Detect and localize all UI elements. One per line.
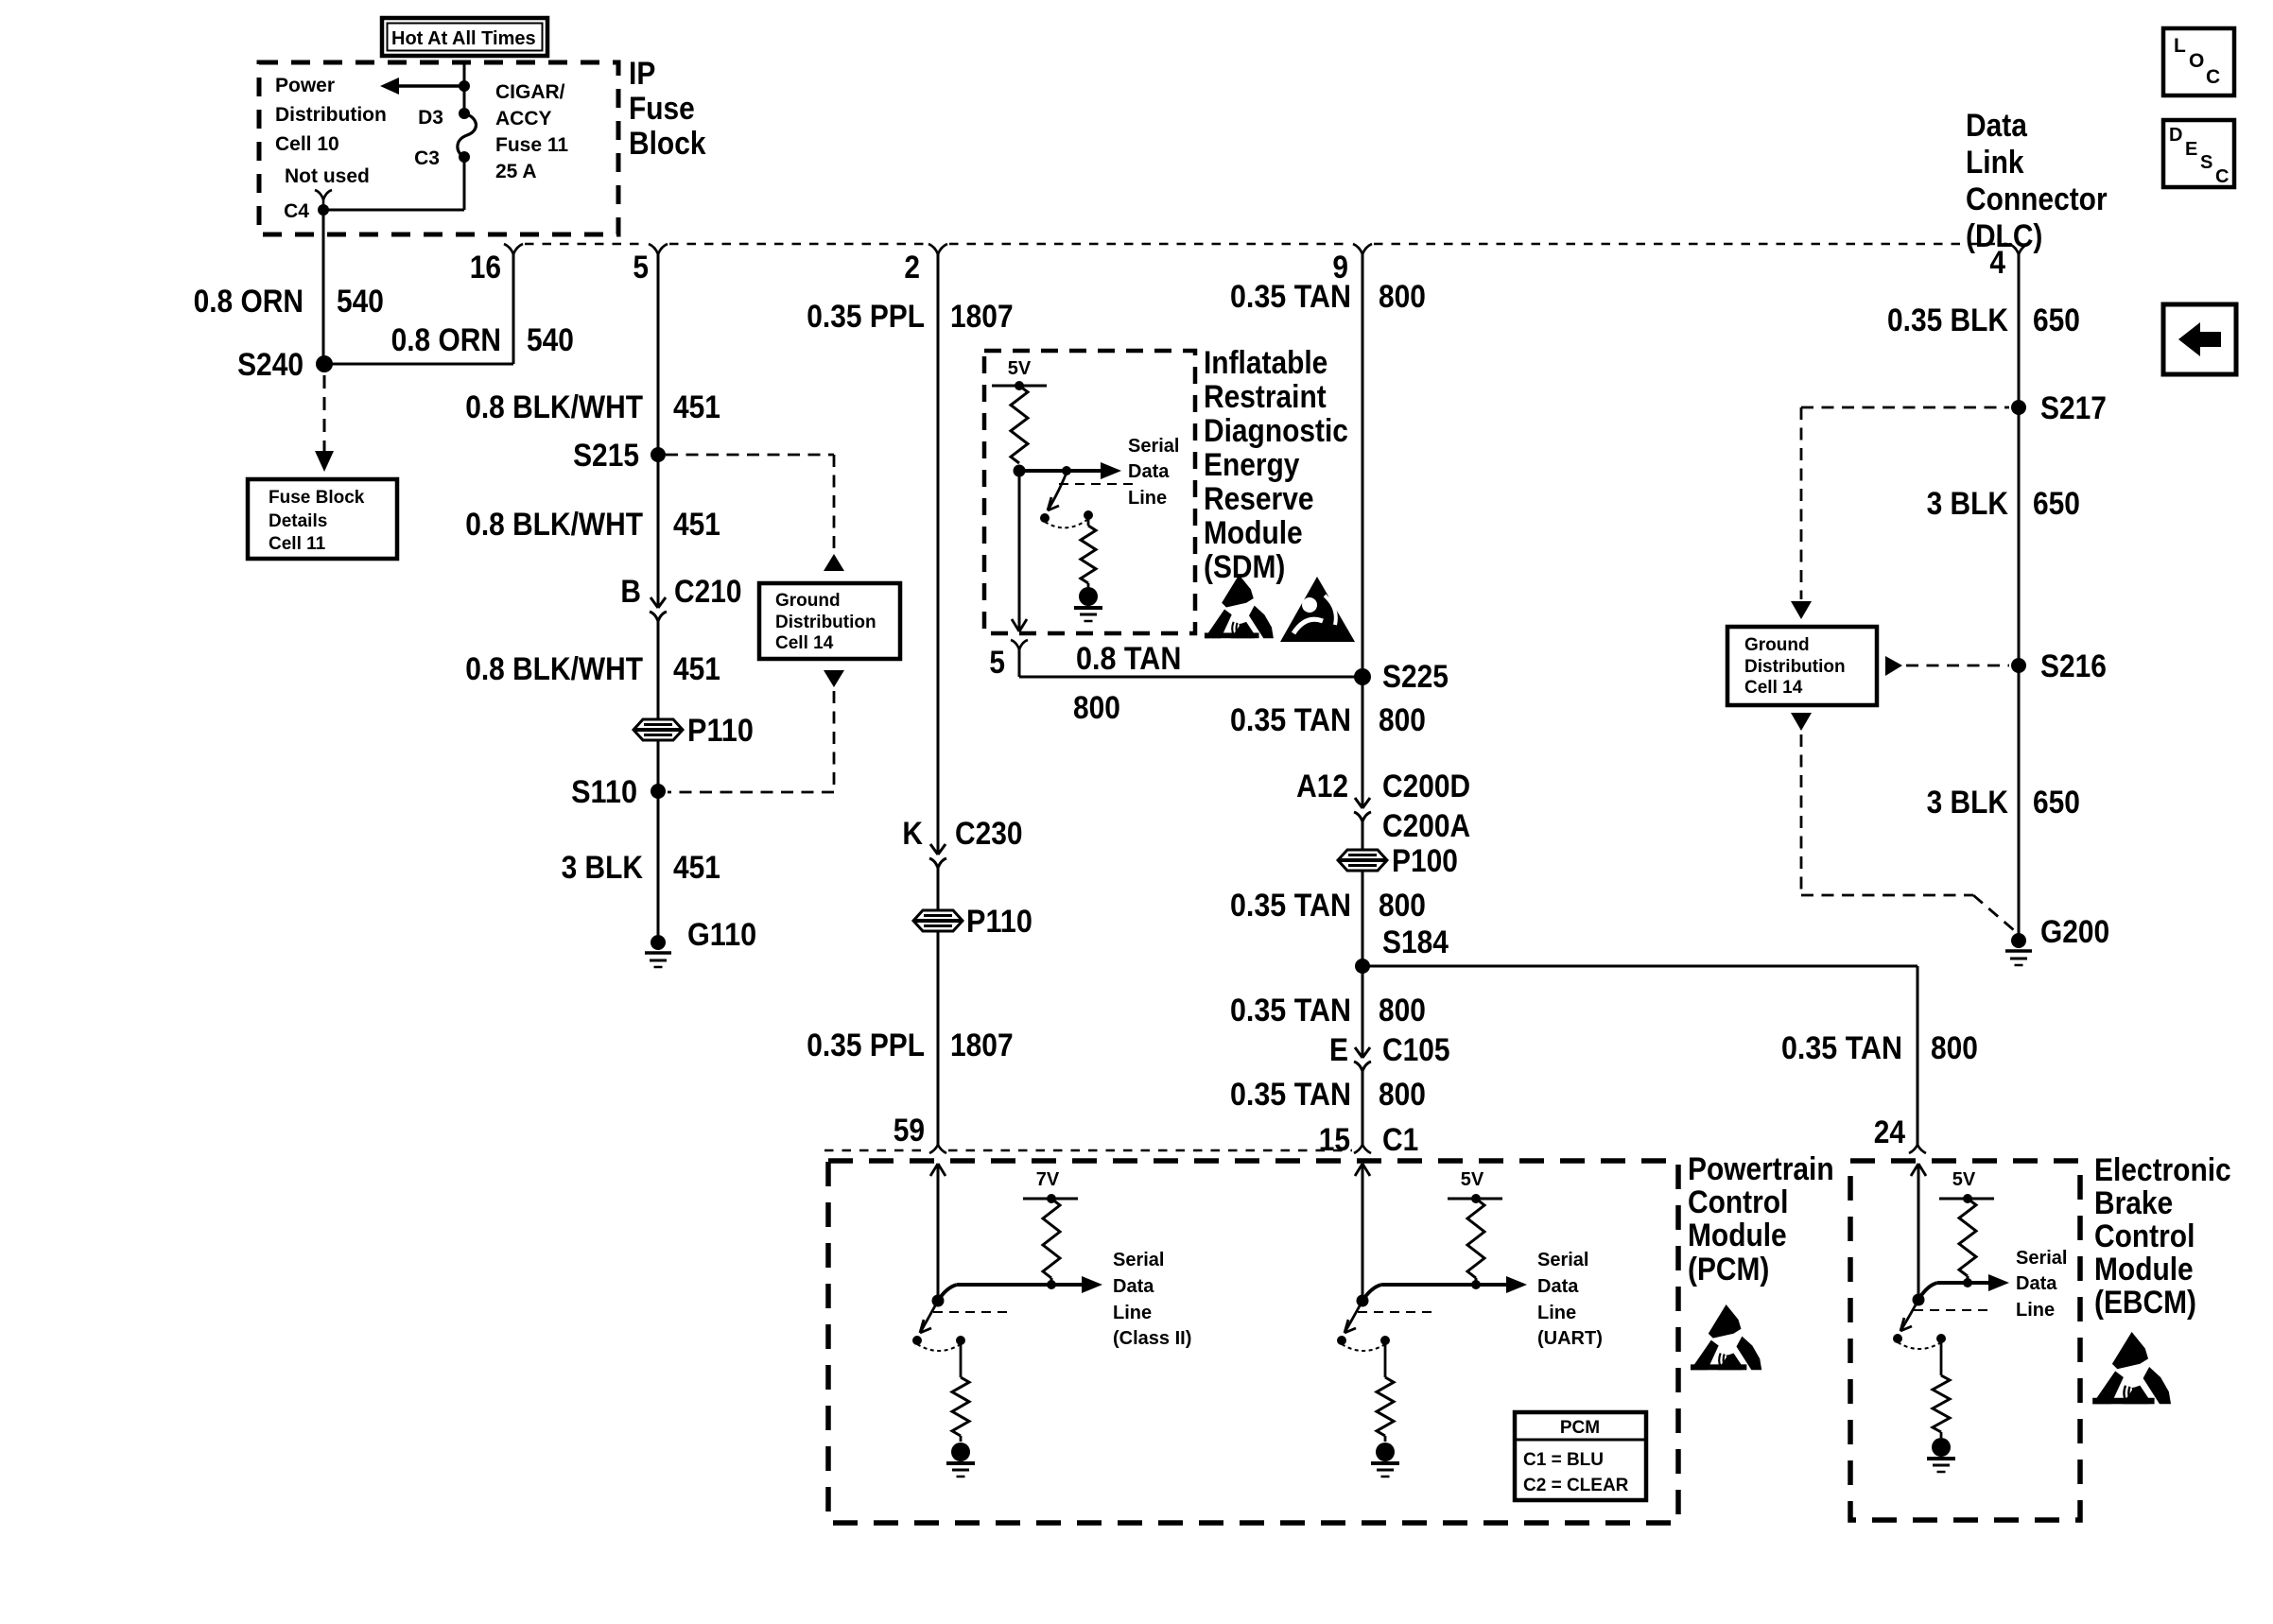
grommet P110 xyxy=(633,719,683,740)
SDM switch pivot xyxy=(1062,466,1071,475)
svg-text:5: 5 xyxy=(633,250,649,285)
ground G110 xyxy=(651,935,666,950)
grommet P110 (floor pan) xyxy=(913,910,963,931)
wire: pin 9 to C200 xyxy=(1362,254,1364,808)
wire: feed from Hot At All Times into fuse block xyxy=(463,64,466,113)
svg-text:Fuse Block: Fuse Block xyxy=(269,488,365,508)
arrow out of right Ground Distribution (side) xyxy=(1885,656,1902,676)
arrow to Power Distribution xyxy=(398,84,464,88)
svg-text:Line: Line xyxy=(1537,1303,1576,1323)
svg-text:540: 540 xyxy=(337,284,384,320)
svg-text:S110: S110 xyxy=(571,774,637,810)
svg-text:0.35 TAN: 0.35 TAN xyxy=(1781,1030,1902,1066)
arrow into Ground Distribution (top) xyxy=(824,554,844,571)
svg-text:800: 800 xyxy=(1379,993,1426,1028)
EBCM pin 24 xyxy=(1909,1145,1926,1153)
svg-text:451: 451 xyxy=(673,850,720,886)
SDM junction xyxy=(1014,465,1026,477)
svg-text:Serial: Serial xyxy=(1537,1250,1588,1270)
DLC pin 9 xyxy=(1353,244,1372,254)
EBCM pull-up resistor xyxy=(1959,1199,1976,1276)
svg-text:Module: Module xyxy=(1204,515,1303,551)
svg-text:540: 540 xyxy=(527,322,574,358)
svg-text:Inflatable: Inflatable xyxy=(1204,345,1327,381)
svg-text:Restraint: Restraint xyxy=(1204,379,1327,415)
wire: S184 branch to EBCM pin 24 xyxy=(1362,965,1917,968)
splice S240 xyxy=(316,355,333,372)
svg-text:3 BLK: 3 BLK xyxy=(1927,785,2009,821)
svg-text:Connector: Connector xyxy=(1966,181,2108,217)
dashed arrow: S240 to Fuse Block Details xyxy=(323,375,326,452)
svg-text:Serial: Serial xyxy=(1128,436,1179,457)
DLC pin 4 xyxy=(2009,244,2028,254)
svg-text:Hot At All Times: Hot At All Times xyxy=(391,28,536,49)
svg-text:0.35 PPL: 0.35 PPL xyxy=(807,1028,925,1063)
svg-text:Fuse: Fuse xyxy=(629,91,695,127)
reference box: DESC xyxy=(2163,120,2234,187)
svg-text:Reserve: Reserve xyxy=(1204,481,1314,517)
svg-text:650: 650 xyxy=(2033,785,2080,821)
svg-text:Line: Line xyxy=(1113,1303,1152,1323)
svg-text:0.8 BLK/WHT: 0.8 BLK/WHT xyxy=(465,389,643,425)
svg-text:451: 451 xyxy=(673,507,720,543)
reference box: Ground Distribution Cell 14 (left) xyxy=(759,583,900,659)
svg-text:Data: Data xyxy=(2016,1273,2057,1294)
connector C210 pin B xyxy=(651,597,658,608)
svg-text:5V: 5V xyxy=(1952,1169,1976,1190)
svg-text:(DLC): (DLC) xyxy=(1966,218,2042,254)
ESD warning triangle (EBCM) xyxy=(2092,1332,2171,1404)
svg-text:Not used: Not used xyxy=(285,165,370,187)
wire: pin 5 to C210 xyxy=(657,254,660,608)
svg-text:C4: C4 xyxy=(284,200,309,222)
PCM 7V supply rail xyxy=(1023,1198,1078,1201)
svg-text:0.35 TAN: 0.35 TAN xyxy=(1230,888,1351,924)
svg-text:Serial: Serial xyxy=(1113,1250,1164,1270)
svg-text:Powertrain: Powertrain xyxy=(1688,1151,1834,1187)
svg-text:0.35 TAN: 0.35 TAN xyxy=(1230,279,1351,315)
svg-text:0.8 TAN: 0.8 TAN xyxy=(1076,641,1181,677)
connector C4 (not used) chevron xyxy=(315,190,332,199)
svg-text:0.8 BLK/WHT: 0.8 BLK/WHT xyxy=(465,507,643,543)
IP Fuse Block dashed box xyxy=(259,62,618,234)
svg-text:800: 800 xyxy=(1379,702,1426,738)
wire: fuse C3 down and left to C4 xyxy=(463,157,466,210)
connector C105 pin E xyxy=(1355,1047,1362,1058)
label box: Hot At All Times xyxy=(382,18,547,56)
fuse CIGAR/ACCY Fuse 11 25 A (terminals D3/C3) xyxy=(459,108,470,119)
svg-text:(PCM): (PCM) xyxy=(1688,1252,1769,1287)
SDM switch arm xyxy=(1048,473,1067,510)
svg-text:CIGAR/: CIGAR/ xyxy=(495,81,565,103)
svg-text:Distribution: Distribution xyxy=(775,613,876,632)
DLC pin 2 xyxy=(928,244,947,254)
grommet P100 xyxy=(1338,850,1387,871)
svg-text:C1: C1 xyxy=(1382,1122,1418,1158)
svg-text:Data: Data xyxy=(1113,1276,1154,1297)
svg-text:E: E xyxy=(1329,1032,1348,1068)
svg-text:Distribution: Distribution xyxy=(1744,657,1846,677)
wire: C210 to P110 xyxy=(657,620,660,719)
svg-text:800: 800 xyxy=(1931,1030,1978,1066)
svg-text:S215: S215 xyxy=(573,438,639,474)
DLC internal bus (dashed) xyxy=(525,243,647,245)
svg-text:800: 800 xyxy=(1379,279,1426,315)
svg-text:B: B xyxy=(620,574,641,610)
svg-text:G200: G200 xyxy=(2040,914,2109,950)
EBCM 5V supply rail xyxy=(1939,1198,1994,1201)
PCM UART switch and serial data arrow xyxy=(1357,1295,1369,1307)
svg-text:A12: A12 xyxy=(1296,769,1348,804)
svg-text:451: 451 xyxy=(673,651,720,687)
arrow into right Ground Distribution (top) xyxy=(1791,601,1812,619)
wire: C105 to PCM pin 15 xyxy=(1362,1070,1364,1145)
svg-text:0.35 PPL: 0.35 PPL xyxy=(807,299,925,335)
svg-text:Energy: Energy xyxy=(1204,447,1299,483)
SDM internal ground xyxy=(1079,587,1098,606)
ESD warning triangle (PCM) xyxy=(1691,1304,1761,1370)
svg-text:0.8 BLK/WHT: 0.8 BLK/WHT xyxy=(465,651,643,687)
svg-text:16: 16 xyxy=(470,250,501,285)
svg-text:451: 451 xyxy=(673,389,720,425)
svg-text:P100: P100 xyxy=(1392,843,1458,879)
splice S216 xyxy=(2011,658,2026,673)
PCM UART pull-down resistor xyxy=(1384,1344,1387,1377)
wire: pin 2 to C230 xyxy=(937,254,940,855)
svg-text:S217: S217 xyxy=(2040,390,2107,426)
DLC pin 16 xyxy=(504,244,523,254)
svg-text:C: C xyxy=(2215,166,2229,187)
svg-text:Module: Module xyxy=(1688,1218,1787,1253)
svg-text:Brake: Brake xyxy=(2094,1185,2173,1221)
svg-text:G110: G110 xyxy=(687,917,756,953)
wire: S240 to DLC pin 16 xyxy=(324,363,513,366)
PCM class II switch and serial data arrow xyxy=(932,1295,945,1307)
svg-text:K: K xyxy=(902,816,923,852)
SDM switch contacts xyxy=(1040,513,1050,523)
svg-text:Module: Module xyxy=(2094,1252,2194,1287)
svg-text:Cell 10: Cell 10 xyxy=(275,133,339,155)
reference box: Ground Distribution Cell 14 (right) xyxy=(1727,627,1877,705)
svg-text:Electronic: Electronic xyxy=(2094,1152,2231,1188)
svg-text:5V: 5V xyxy=(1008,358,1032,379)
svg-text:800: 800 xyxy=(1379,1077,1426,1113)
wire: SDM junction to pin 5 (internal) xyxy=(1018,471,1021,631)
svg-text:3 BLK: 3 BLK xyxy=(562,850,644,886)
svg-text:2: 2 xyxy=(904,250,920,285)
svg-text:0.35 TAN: 0.35 TAN xyxy=(1230,1077,1351,1113)
EBCM switch and serial data arrow xyxy=(1913,1294,1925,1306)
SDM pin 5 connector xyxy=(1011,640,1028,649)
svg-text:C3: C3 xyxy=(414,147,440,169)
svg-text:24: 24 xyxy=(1874,1114,1905,1150)
svg-text:0.8 ORN: 0.8 ORN xyxy=(194,284,304,320)
svg-text:E: E xyxy=(2185,139,2197,160)
svg-text:Cell 14: Cell 14 xyxy=(1744,678,1803,698)
svg-text:(SDM): (SDM) xyxy=(1204,549,1285,585)
wire: P110 to PCM pin 59 xyxy=(937,931,940,1145)
svg-text:Distribution: Distribution xyxy=(275,104,387,126)
junction C4 xyxy=(318,204,329,216)
svg-text:ACCY: ACCY xyxy=(495,108,552,130)
PCM pin 59 xyxy=(929,1145,946,1153)
svg-text:C: C xyxy=(2206,66,2220,88)
svg-text:S225: S225 xyxy=(1382,659,1449,695)
SDM dashed box xyxy=(984,351,1195,633)
wire: P110 to G110 xyxy=(657,740,660,935)
wire: C230 to P110 xyxy=(937,867,940,910)
svg-text:Control: Control xyxy=(2094,1218,2195,1254)
ground G200 xyxy=(2011,933,2026,948)
svg-text:3 BLK: 3 BLK xyxy=(1927,486,2009,522)
PCM class II pull-up resistor xyxy=(1043,1199,1060,1278)
svg-text:Details: Details xyxy=(269,511,327,531)
svg-text:650: 650 xyxy=(2033,302,2080,338)
arrow out of right Ground Distribution (bottom) xyxy=(1791,713,1812,731)
svg-text:0.35 BLK: 0.35 BLK xyxy=(1887,302,2008,338)
PCM UART pull-up resistor xyxy=(1467,1199,1484,1278)
svg-text:59: 59 xyxy=(894,1113,925,1149)
splice S215 xyxy=(651,447,666,462)
dashed link: Ground Distribution to S216 xyxy=(1906,665,2009,667)
splice S225 xyxy=(1354,668,1371,685)
wire: P100 to C105 xyxy=(1362,871,1364,1058)
splice S110 xyxy=(651,784,666,799)
svg-text:C200D: C200D xyxy=(1382,769,1470,804)
svg-text:C1 = BLU: C1 = BLU xyxy=(1523,1450,1604,1470)
svg-text:P110: P110 xyxy=(966,904,1032,940)
svg-text:Serial: Serial xyxy=(2016,1248,2067,1269)
SDM serial data line arrow xyxy=(1019,469,1102,473)
svg-text:Power: Power xyxy=(275,75,335,96)
svg-text:5: 5 xyxy=(989,645,1005,681)
svg-text:0.35 TAN: 0.35 TAN xyxy=(1230,702,1351,738)
svg-text:0.8 ORN: 0.8 ORN xyxy=(391,322,501,358)
svg-text:Data: Data xyxy=(1128,461,1170,482)
SDM pull-down resistor xyxy=(1087,519,1090,526)
EBCM pull-down resistor xyxy=(1940,1342,1943,1375)
splice S217 xyxy=(2011,400,2026,415)
svg-text:Ground: Ground xyxy=(1744,635,1810,655)
svg-text:PCM: PCM xyxy=(1560,1418,1600,1438)
svg-text:Data: Data xyxy=(1537,1276,1579,1297)
svg-text:800: 800 xyxy=(1379,888,1426,924)
ESD warning triangle (SDM) xyxy=(1205,575,1274,638)
svg-text:C210: C210 xyxy=(674,574,742,610)
svg-text:1807: 1807 xyxy=(950,1028,1014,1063)
svg-text:7V: 7V xyxy=(1036,1169,1060,1190)
svg-text:Line: Line xyxy=(1128,488,1167,509)
svg-text:Ground: Ground xyxy=(775,591,841,611)
PCM 5V supply rail xyxy=(1448,1198,1502,1201)
svg-text:(Class II): (Class II) xyxy=(1113,1328,1191,1349)
connector C200D/C200A pin A12 xyxy=(1355,798,1362,808)
arrow out of Ground Distribution (bottom) xyxy=(824,670,844,687)
EBCM input wire xyxy=(1911,1164,1918,1176)
connector legend box: PCM C1=BLU C2=CLEAR xyxy=(1515,1412,1646,1500)
PCM UART input wire xyxy=(1355,1164,1362,1176)
dashed link: S215 to Ground Distribution xyxy=(666,454,834,457)
svg-text:(UART): (UART) xyxy=(1537,1328,1603,1349)
svg-text:Diagnostic: Diagnostic xyxy=(1204,413,1348,449)
svg-text:15: 15 xyxy=(1319,1122,1350,1158)
wire: C4 down to S240 xyxy=(322,210,325,364)
reference box: LOC xyxy=(2163,28,2234,95)
svg-text:C2 = CLEAR: C2 = CLEAR xyxy=(1523,1476,1629,1495)
svg-text:S: S xyxy=(2200,152,2212,173)
svg-text:C230: C230 xyxy=(955,816,1023,852)
SDM pull-up resistor xyxy=(1011,386,1028,463)
svg-text:Fuse 11: Fuse 11 xyxy=(495,134,568,156)
dashed link: Ground Distribution to G200 xyxy=(1800,734,1803,895)
svg-text:S184: S184 xyxy=(1382,924,1449,960)
SDM 5V supply rail xyxy=(992,385,1047,388)
bottom pin bus (dashed) xyxy=(824,1149,928,1151)
svg-text:C105: C105 xyxy=(1382,1032,1450,1068)
svg-text:C200A: C200A xyxy=(1382,808,1470,844)
svg-text:Block: Block xyxy=(629,126,706,162)
PCM class II internal ground xyxy=(951,1443,970,1461)
reference box: back arrow xyxy=(2163,304,2236,374)
EBCM dashed box xyxy=(1850,1161,2080,1520)
airbag warning triangle (SDM) xyxy=(1280,577,1355,642)
svg-text:5V: 5V xyxy=(1461,1169,1484,1190)
PCM dashed box xyxy=(828,1161,1678,1523)
svg-text:Data: Data xyxy=(1966,108,2028,144)
svg-text:D: D xyxy=(2169,125,2182,146)
svg-text:Link: Link xyxy=(1966,145,2024,181)
wire: C200 to P100 xyxy=(1362,821,1364,850)
dashed link: Ground Distribution to S110 xyxy=(833,691,836,792)
connector C230 pin K xyxy=(930,844,938,855)
svg-text:650: 650 xyxy=(2033,486,2080,522)
svg-text:25 A: 25 A xyxy=(495,161,537,182)
junction on feed wire xyxy=(459,80,470,92)
svg-text:O: O xyxy=(2189,50,2204,72)
svg-text:S240: S240 xyxy=(237,347,304,383)
EBCM internal ground xyxy=(1932,1438,1951,1457)
svg-text:Line: Line xyxy=(2016,1300,2055,1321)
PCM class II pull-down resistor xyxy=(960,1344,963,1377)
svg-text:S216: S216 xyxy=(2040,648,2107,684)
svg-text:800: 800 xyxy=(1073,690,1120,726)
wire: SDM pin 5 to S225 xyxy=(1018,649,1021,677)
svg-text:P110: P110 xyxy=(687,713,754,749)
reference box: Fuse Block Details Cell 11 xyxy=(248,479,397,559)
PCM class II input wire xyxy=(930,1164,938,1176)
wire: DLC pin 4 to G200 xyxy=(2018,254,2021,934)
svg-text:1807: 1807 xyxy=(950,299,1014,335)
svg-text:Cell 14: Cell 14 xyxy=(775,633,834,653)
SDM switch open-position dash xyxy=(1059,483,1138,485)
svg-text:Cell 11: Cell 11 xyxy=(269,534,326,554)
svg-text:(EBCM): (EBCM) xyxy=(2094,1285,2196,1321)
svg-text:0.35 TAN: 0.35 TAN xyxy=(1230,993,1351,1028)
DLC pin 5 xyxy=(649,244,668,254)
dashed link: S217 to Ground Distribution (right) xyxy=(1801,406,2009,409)
svg-text:D3: D3 xyxy=(418,107,443,129)
svg-text:IP: IP xyxy=(629,56,655,92)
svg-text:Control: Control xyxy=(1688,1184,1788,1220)
PCM pin 15 / connector C1 xyxy=(1354,1145,1371,1153)
PCM UART internal ground xyxy=(1376,1443,1395,1461)
svg-text:L: L xyxy=(2174,35,2186,57)
